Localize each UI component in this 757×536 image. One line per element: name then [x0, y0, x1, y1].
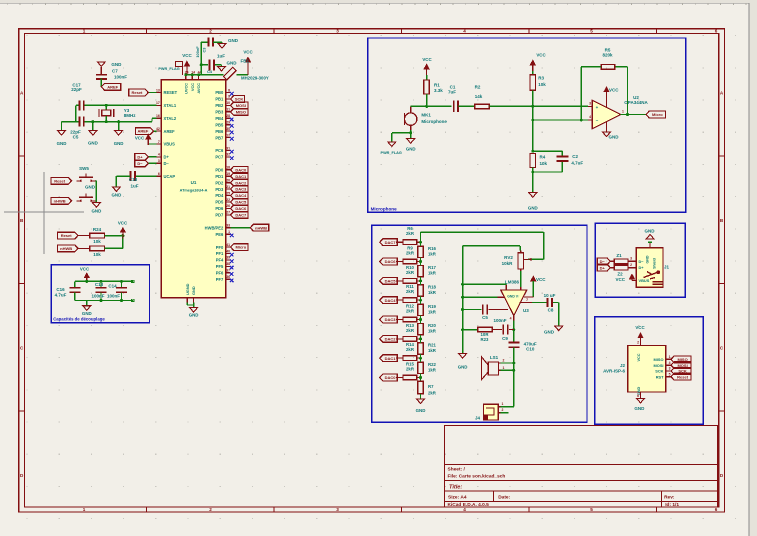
- svg-text:10 uF: 10 uF: [544, 293, 556, 298]
- svg-text:8MHz: 8MHz: [124, 113, 137, 118]
- svg-text:nHWB: nHWB: [60, 246, 72, 251]
- svg-text:R23: R23: [481, 337, 489, 342]
- svg-text:U3: U3: [523, 308, 529, 313]
- svg-text:R20: R20: [428, 323, 436, 328]
- svg-text:RST: RST: [656, 374, 664, 379]
- svg-text:C2: C2: [572, 154, 578, 159]
- svg-text:GND: GND: [228, 38, 239, 43]
- svg-text:GND: GND: [227, 61, 238, 66]
- svg-text:PD7: PD7: [215, 213, 224, 218]
- svg-text:Size: A4: Size: A4: [448, 494, 467, 500]
- svg-text:VCC: VCC: [635, 325, 645, 330]
- svg-text:MH2029-300Y: MH2029-300Y: [241, 76, 269, 81]
- svg-text:4: 4: [589, 115, 591, 119]
- svg-text:3: 3: [630, 257, 632, 261]
- svg-text:22: 22: [226, 198, 230, 202]
- svg-text:DAC2: DAC2: [385, 336, 397, 341]
- svg-text:10k: 10k: [93, 239, 101, 244]
- svg-text:DAC5: DAC5: [235, 200, 247, 205]
- svg-text:PD2: PD2: [215, 180, 224, 185]
- svg-text:Shield: Shield: [653, 258, 657, 269]
- svg-text:D−: D−: [600, 259, 606, 264]
- svg-text:1kR: 1kR: [428, 271, 437, 276]
- svg-text:41: 41: [226, 243, 230, 247]
- svg-text:D+: D+: [600, 265, 606, 270]
- svg-text:2kR: 2kR: [406, 367, 415, 372]
- svg-text:GND: GND: [111, 62, 122, 67]
- svg-text:PF7: PF7: [216, 277, 224, 282]
- svg-text:R7: R7: [428, 384, 434, 389]
- svg-text:PF4: PF4: [216, 258, 224, 263]
- svg-text:VCC: VCC: [609, 88, 619, 93]
- svg-text:C13: C13: [95, 282, 104, 287]
- svg-text:4.7uF: 4.7uF: [55, 293, 67, 298]
- svg-text:30: 30: [226, 127, 230, 131]
- svg-text:SCK: SCK: [235, 97, 244, 102]
- svg-text:4: 4: [158, 153, 160, 157]
- svg-text:MOSI: MOSI: [654, 363, 664, 368]
- svg-text:Sheet: /: Sheet: /: [448, 467, 466, 473]
- svg-text:2kR: 2kR: [406, 347, 415, 352]
- svg-text:MISO: MISO: [236, 109, 246, 114]
- svg-text:PF0: PF0: [216, 245, 224, 250]
- svg-text:DAC5: DAC5: [385, 278, 397, 283]
- svg-text:AREF: AREF: [164, 129, 176, 134]
- svg-text:7: 7: [526, 298, 528, 302]
- svg-text:D+: D+: [137, 155, 143, 160]
- svg-text:GND: GND: [82, 311, 92, 316]
- svg-text:100nF: 100nF: [91, 294, 104, 299]
- svg-text:DAC0: DAC0: [385, 375, 397, 380]
- svg-text:1: 1: [228, 230, 230, 234]
- svg-text:10: 10: [226, 101, 230, 105]
- svg-text:VCC: VCC: [118, 221, 128, 226]
- svg-text:PD4: PD4: [215, 193, 224, 198]
- svg-text:27: 27: [226, 211, 230, 215]
- svg-text:C4: C4: [207, 69, 213, 74]
- svg-text:UCAP: UCAP: [164, 174, 176, 179]
- svg-text:AREF: AREF: [107, 84, 118, 89]
- svg-text:PD0: PD0: [215, 167, 224, 172]
- svg-text:4.7uF: 4.7uF: [571, 161, 583, 166]
- svg-text:MOSI: MOSI: [236, 103, 246, 108]
- svg-text:PC7: PC7: [215, 155, 224, 160]
- svg-text:D+: D+: [639, 265, 645, 270]
- svg-text:PB7: PB7: [215, 135, 224, 140]
- svg-text:DAC6: DAC6: [235, 206, 247, 211]
- svg-text:VCC: VCC: [135, 136, 145, 141]
- svg-text:Z1: Z1: [616, 253, 622, 258]
- svg-text:GND: GND: [88, 141, 98, 146]
- svg-text:DAC6: DAC6: [385, 259, 397, 264]
- svg-text:100nF: 100nF: [195, 46, 200, 58]
- svg-text:Title:: Title:: [449, 485, 462, 491]
- svg-text:MK1: MK1: [421, 113, 431, 118]
- svg-text:LM386: LM386: [505, 280, 520, 285]
- svg-text:2kR: 2kR: [406, 309, 415, 314]
- svg-text:D−: D−: [164, 161, 170, 166]
- svg-text:GND: GND: [609, 135, 620, 140]
- svg-text:D−: D−: [639, 259, 645, 264]
- svg-text:R16: R16: [428, 246, 436, 251]
- svg-text:7: 7: [158, 140, 160, 144]
- svg-text:VCC: VCC: [80, 267, 90, 272]
- svg-text:PB2: PB2: [215, 103, 224, 108]
- svg-text:10k: 10k: [540, 161, 548, 166]
- svg-text:R4: R4: [540, 155, 546, 160]
- svg-text:4: 4: [510, 317, 512, 321]
- svg-text:VCC: VCC: [190, 83, 195, 91]
- svg-text:3: 3: [158, 159, 160, 163]
- svg-text:C9: C9: [502, 336, 508, 341]
- svg-text:C18: C18: [129, 177, 138, 182]
- svg-text:UGND: UGND: [185, 283, 190, 295]
- svg-text:1: 1: [502, 402, 504, 406]
- svg-text:GND: GND: [544, 330, 555, 335]
- svg-text:1kR: 1kR: [428, 290, 437, 295]
- svg-text:3.3k: 3.3k: [434, 88, 443, 93]
- svg-text:PB0: PB0: [215, 90, 224, 95]
- svg-text:VBUS: VBUS: [639, 278, 650, 283]
- svg-text:VCC: VCC: [536, 277, 546, 282]
- svg-text:1kR: 1kR: [428, 309, 437, 314]
- svg-text:GND: GND: [112, 193, 122, 198]
- svg-text:1kR: 1kR: [428, 251, 437, 256]
- svg-text:1: 1: [669, 355, 671, 359]
- svg-text:J2: J2: [620, 363, 626, 368]
- svg-text:U1: U1: [191, 180, 197, 185]
- svg-text:C8: C8: [548, 308, 554, 313]
- svg-text:DAC4: DAC4: [235, 193, 247, 198]
- svg-text:D−: D−: [137, 161, 143, 166]
- svg-text:21: 21: [226, 185, 230, 189]
- svg-text:FB1: FB1: [241, 59, 250, 64]
- svg-text:C5: C5: [73, 135, 79, 140]
- svg-text:DAC3: DAC3: [235, 187, 247, 192]
- svg-text:LS1: LS1: [490, 355, 499, 360]
- svg-text:33: 33: [226, 224, 230, 228]
- svg-text:1uF: 1uF: [217, 54, 225, 59]
- svg-text:RV2: RV2: [504, 255, 513, 260]
- svg-text:GND: GND: [528, 206, 538, 211]
- svg-text:PF1: PF1: [216, 251, 224, 256]
- svg-text:Capacités de découplage: Capacités de découplage: [53, 317, 105, 322]
- svg-text:DAC4: DAC4: [385, 298, 397, 303]
- svg-text:VCC: VCC: [637, 353, 641, 361]
- svg-text:6: 6: [715, 507, 718, 512]
- svg-text:16: 16: [156, 114, 160, 118]
- svg-text:R19: R19: [428, 304, 436, 309]
- svg-text:2kR: 2kR: [406, 270, 415, 275]
- svg-text:XTAL1: XTAL1: [164, 103, 177, 108]
- svg-text:C3: C3: [202, 47, 207, 53]
- svg-text:GND: GND: [634, 406, 645, 411]
- svg-text:C7: C7: [112, 69, 118, 74]
- svg-text:GND: GND: [646, 255, 650, 263]
- svg-text:PB1: PB1: [215, 97, 224, 102]
- svg-text:3: 3: [589, 102, 591, 106]
- svg-text:5: 5: [669, 372, 671, 376]
- svg-text:J4: J4: [475, 416, 481, 421]
- svg-text:9: 9: [228, 95, 230, 99]
- svg-text:1: 1: [622, 110, 624, 114]
- svg-text:PWR_FLAG: PWR_FLAG: [158, 67, 179, 71]
- svg-text:KiCad E.D.A. 4.0.5: KiCad E.D.A. 4.0.5: [448, 502, 490, 508]
- svg-text:2: 2: [637, 341, 639, 345]
- svg-text:GND: GND: [416, 408, 426, 413]
- svg-text:SCK: SCK: [655, 369, 663, 374]
- svg-text:2: 2: [209, 507, 212, 512]
- svg-text:C10: C10: [526, 347, 535, 352]
- svg-text:PB4: PB4: [215, 116, 224, 121]
- svg-text:1: 1: [83, 28, 86, 33]
- svg-text:VCC: VCC: [243, 50, 253, 55]
- svg-text:RESET: RESET: [164, 90, 178, 95]
- svg-text:37: 37: [226, 269, 230, 273]
- svg-text:26: 26: [226, 204, 230, 208]
- svg-text:R18: R18: [428, 285, 436, 290]
- svg-text:4: 4: [463, 28, 466, 33]
- svg-text:8: 8: [228, 88, 230, 92]
- svg-text:1kR: 1kR: [428, 348, 437, 353]
- svg-text:10kR: 10kR: [502, 261, 514, 266]
- svg-text:DAC7: DAC7: [385, 240, 397, 245]
- svg-text:6: 6: [158, 172, 160, 176]
- svg-text:VCC: VCC: [422, 57, 432, 62]
- svg-text:SW5: SW5: [79, 166, 89, 171]
- svg-text:VCC: VCC: [182, 53, 192, 58]
- svg-text:C14: C14: [108, 284, 117, 289]
- svg-text:GND V↑: GND V↑: [507, 295, 520, 299]
- svg-text:100nF: 100nF: [114, 75, 127, 80]
- svg-text:R1: R1: [434, 83, 440, 88]
- svg-text:PWR_FLAG: PWR_FLAG: [381, 151, 402, 155]
- svg-text:Rev:: Rev:: [664, 494, 675, 500]
- svg-text:VCC: VCC: [536, 53, 546, 58]
- svg-text:PE6: PE6: [216, 232, 224, 237]
- svg-text:Micro: Micro: [236, 245, 247, 250]
- svg-text:17: 17: [156, 101, 160, 105]
- svg-text:VBUS: VBUS: [164, 142, 176, 147]
- svg-text:nHWB: nHWB: [54, 198, 66, 203]
- svg-text:10k: 10k: [93, 252, 101, 257]
- svg-text:AVCC: AVCC: [196, 83, 201, 94]
- svg-text:820k: 820k: [602, 53, 613, 58]
- svg-text:DAC2: DAC2: [235, 180, 247, 185]
- svg-text:Id: 1/1: Id: 1/1: [665, 502, 679, 508]
- svg-text:J1: J1: [664, 265, 670, 270]
- svg-text:42: 42: [156, 127, 160, 131]
- svg-text:GND: GND: [85, 184, 96, 189]
- svg-text:PB5: PB5: [215, 122, 224, 127]
- svg-text:10k: 10k: [538, 82, 546, 87]
- svg-text:GND: GND: [189, 313, 199, 318]
- svg-text:13: 13: [156, 88, 160, 92]
- svg-text:ATmega16U4-A: ATmega16U4-A: [180, 189, 208, 193]
- svg-text:6: 6: [637, 394, 639, 398]
- svg-text:2kR: 2kR: [428, 391, 437, 396]
- svg-text:R22: R22: [428, 362, 436, 367]
- svg-text:Reset: Reset: [131, 90, 143, 95]
- svg-text:Date:: Date:: [498, 494, 510, 500]
- svg-text:GND: GND: [406, 147, 416, 152]
- svg-text:100nF: 100nF: [493, 318, 506, 323]
- svg-text:VCC: VCC: [615, 277, 625, 282]
- svg-text:Reset: Reset: [677, 374, 689, 379]
- svg-text:PD6: PD6: [215, 206, 224, 211]
- svg-text:19: 19: [226, 172, 230, 176]
- svg-text:GND: GND: [92, 209, 102, 214]
- svg-text:2kR: 2kR: [406, 289, 415, 294]
- svg-text:Reset: Reset: [61, 233, 73, 238]
- svg-text:2: 2: [502, 408, 504, 412]
- svg-text:GND: GND: [645, 229, 656, 234]
- svg-text:1: 1: [503, 366, 505, 370]
- svg-text:DAC7: DAC7: [235, 212, 247, 217]
- svg-text:7uF: 7uF: [448, 89, 456, 94]
- svg-text:3: 3: [669, 367, 671, 371]
- svg-text:2: 2: [503, 359, 505, 363]
- svg-text:1uF: 1uF: [130, 183, 138, 188]
- svg-text:2: 2: [630, 263, 632, 267]
- svg-text:14k: 14k: [475, 94, 483, 99]
- svg-text:6: 6: [715, 28, 718, 33]
- svg-text:R17: R17: [428, 265, 436, 270]
- svg-text:DAC3: DAC3: [385, 317, 397, 322]
- svg-text:22pF: 22pF: [71, 87, 82, 92]
- svg-text:File: Carte son.kicad_sch: File: Carte son.kicad_sch: [448, 473, 506, 479]
- svg-text:29: 29: [226, 121, 230, 125]
- svg-text:28: 28: [226, 114, 230, 118]
- svg-text:31: 31: [226, 146, 230, 150]
- svg-text:MISO: MISO: [677, 357, 687, 362]
- svg-text:GND: GND: [114, 141, 124, 146]
- svg-text:Micro: Micro: [652, 112, 663, 117]
- svg-text:GND: GND: [458, 365, 468, 370]
- svg-text:Z2: Z2: [617, 272, 623, 277]
- svg-text:PC6: PC6: [215, 148, 224, 153]
- svg-text:18: 18: [226, 166, 230, 170]
- svg-text:38: 38: [226, 262, 230, 266]
- svg-text:32: 32: [226, 153, 230, 157]
- svg-text:PB6: PB6: [215, 129, 224, 134]
- svg-text:R21: R21: [428, 343, 436, 348]
- svg-text:PD3: PD3: [215, 187, 224, 192]
- svg-text:5: 5: [590, 507, 593, 512]
- svg-text:470uF: 470uF: [524, 341, 537, 346]
- svg-text:3: 3: [336, 28, 339, 33]
- svg-text:Reset: Reset: [54, 178, 66, 183]
- svg-text:MISO: MISO: [654, 357, 664, 362]
- svg-text:100nF: 100nF: [107, 294, 120, 299]
- svg-text:XTAL2: XTAL2: [164, 116, 177, 121]
- svg-text:R3: R3: [538, 76, 544, 81]
- svg-text:+: +: [596, 105, 599, 110]
- svg-text:C5: C5: [482, 315, 488, 320]
- svg-text:40: 40: [226, 249, 230, 253]
- svg-text:GND: GND: [191, 286, 196, 295]
- svg-text:PF6: PF6: [216, 271, 224, 276]
- svg-text:DAC1: DAC1: [385, 356, 397, 361]
- svg-text:nHWB: nHWB: [255, 225, 267, 230]
- svg-text:AREF: AREF: [137, 129, 148, 134]
- svg-text:DAC1: DAC1: [235, 174, 247, 179]
- svg-text:12: 12: [226, 133, 230, 137]
- svg-text:1kR: 1kR: [428, 367, 437, 372]
- svg-text:Microphone: Microphone: [421, 119, 447, 124]
- svg-text:PB3: PB3: [215, 110, 224, 115]
- svg-text:Microphone: Microphone: [371, 206, 397, 211]
- svg-text:D+: D+: [164, 155, 170, 160]
- svg-text:PD1: PD1: [215, 174, 224, 179]
- svg-text:25: 25: [226, 191, 230, 195]
- svg-text:PF5: PF5: [216, 264, 224, 269]
- svg-text:PD5: PD5: [215, 200, 224, 205]
- svg-text:3: 3: [336, 507, 339, 512]
- svg-text:39: 39: [226, 256, 230, 260]
- svg-text:11: 11: [226, 108, 230, 112]
- svg-text:1: 1: [83, 507, 86, 512]
- svg-text:GND: GND: [57, 141, 67, 146]
- svg-text:4: 4: [669, 361, 671, 365]
- svg-text:1kR: 1kR: [428, 329, 437, 334]
- svg-text:R24: R24: [93, 227, 102, 232]
- svg-text:C16: C16: [56, 287, 65, 292]
- svg-text:2kR: 2kR: [406, 328, 415, 333]
- svg-text:2kR: 2kR: [406, 251, 415, 256]
- svg-text:DAC0: DAC0: [235, 167, 247, 172]
- svg-text:2: 2: [209, 28, 212, 33]
- svg-text:R2: R2: [475, 85, 481, 90]
- svg-text:5: 5: [590, 28, 593, 33]
- svg-text:2kR: 2kR: [406, 231, 415, 236]
- svg-text:36: 36: [226, 275, 230, 279]
- svg-text:UVCC: UVCC: [183, 83, 188, 94]
- svg-text:HWB/PE2: HWB/PE2: [205, 225, 224, 230]
- svg-text:AVR-ISP-6: AVR-ISP-6: [603, 369, 625, 374]
- svg-text:20: 20: [226, 178, 230, 182]
- svg-text:−: −: [596, 118, 599, 123]
